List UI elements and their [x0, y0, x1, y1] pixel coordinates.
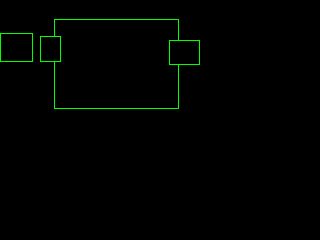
main module outline U1: [55, 20, 179, 109]
input port box (left pin block on U1): [41, 37, 61, 62]
output port box (right pin block on U1): [170, 41, 200, 65]
left component box: [1, 34, 33, 62]
